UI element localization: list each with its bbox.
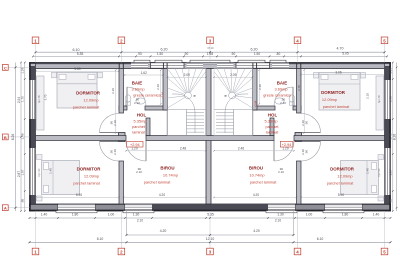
jamb mark top wall xyxy=(256,63,258,69)
svg-text:4.20: 4.20 xyxy=(159,193,165,197)
svg-text:2.10: 2.10 xyxy=(280,101,286,105)
wall exterior right xyxy=(385,63,391,212)
door baie right xyxy=(292,87,294,106)
stairs left unit xyxy=(168,69,207,136)
dimension chain left mid xyxy=(20,63,22,212)
jamb mark top wall xyxy=(252,63,254,69)
svg-text:5.35mp: 5.35mp xyxy=(134,119,147,124)
svg-text:1.20: 1.20 xyxy=(282,147,288,151)
grid stub left B xyxy=(8,136,29,138)
outer edge top wall xyxy=(30,62,132,64)
wall exterior top xyxy=(30,63,391,69)
grid marker left C xyxy=(2,65,8,71)
dimension row bottom total xyxy=(30,241,391,243)
interior dim vline baie R xyxy=(258,70,260,104)
svg-text:DORMITOR: DORMITOR xyxy=(77,167,102,172)
wall baie-left stair side xyxy=(163,69,168,111)
svg-text:1.28: 1.28 xyxy=(21,67,25,73)
wall baie-right bottom b xyxy=(293,106,301,110)
svg-text:2.10: 2.10 xyxy=(301,120,305,126)
svg-text:up: up xyxy=(193,94,197,98)
outer edge left wall xyxy=(29,63,31,81)
grid marker top 2 xyxy=(118,37,125,44)
svg-text:1.57: 1.57 xyxy=(389,169,393,175)
svg-text:4.70: 4.70 xyxy=(337,47,344,51)
svg-text:1.40: 1.40 xyxy=(366,168,370,174)
grid marker bottom 4 xyxy=(294,248,301,255)
level box hol right xyxy=(280,141,293,147)
grid stub left C xyxy=(8,66,29,68)
svg-text:6.10: 6.10 xyxy=(73,48,80,52)
interior dim birou L width xyxy=(124,196,207,198)
outer edge top wall xyxy=(289,62,391,64)
wall B-line right xyxy=(294,136,385,141)
interior dim hol-birou R xyxy=(214,150,294,152)
pier left wall xyxy=(30,119,35,148)
window bottom wall xyxy=(325,204,362,210)
door dormitor top-left xyxy=(100,132,120,134)
nightstand BR b xyxy=(378,196,384,201)
pier divider right xyxy=(295,133,302,142)
door birou left xyxy=(145,141,147,162)
wall divider right upper xyxy=(297,69,302,114)
nightstand TL a xyxy=(52,72,57,78)
wall inner line top xyxy=(36,63,385,65)
window top wall xyxy=(217,63,234,68)
svg-text:12.09mp: 12.09mp xyxy=(337,174,352,179)
svg-text:5.05: 5.05 xyxy=(342,52,349,56)
jamb mark top wall xyxy=(122,63,124,69)
pier bottom wall xyxy=(295,204,325,210)
grid stub bottom 1 xyxy=(35,211,37,248)
outer edge bottom wall xyxy=(152,209,268,211)
svg-text:.90: .90 xyxy=(137,52,142,56)
grid stub top 1 xyxy=(35,44,37,63)
svg-text:5.90: 5.90 xyxy=(338,193,344,197)
interior dim vline dormitor R xyxy=(303,70,305,133)
outer edge left wall xyxy=(29,119,31,148)
nightstand TL b xyxy=(98,72,103,78)
wall baie-left bottom b xyxy=(145,106,168,110)
wall exterior left xyxy=(30,63,36,212)
door baie left xyxy=(126,87,128,106)
window sill bottom xyxy=(123,211,154,213)
svg-text:5.80: 5.80 xyxy=(74,67,80,71)
bed dormitor top-right xyxy=(319,73,360,111)
wall divider right lower xyxy=(297,161,302,204)
svg-text:12.09mp: 12.09mp xyxy=(322,97,337,102)
svg-text:.90: .90 xyxy=(305,150,309,154)
grid stub top 5 xyxy=(384,44,386,63)
grid marker bottom 2 xyxy=(118,248,125,255)
wall inner line top b xyxy=(36,66,132,68)
window right wall xyxy=(385,80,390,119)
interior dim vline dormitor L xyxy=(115,70,117,133)
svg-text:1.98: 1.98 xyxy=(207,52,213,56)
svg-text:1.28: 1.28 xyxy=(389,67,393,73)
pier right wall xyxy=(385,119,390,148)
svg-text:HOL: HOL xyxy=(268,113,278,118)
line stairwell edge left xyxy=(166,110,168,136)
pier right wall xyxy=(385,66,390,80)
grid stub bottom 2 xyxy=(120,211,122,248)
window sill bottom xyxy=(266,211,297,213)
svg-text:3.69mp: 3.69mp xyxy=(275,87,288,92)
bed dormitor top-left xyxy=(57,72,97,108)
outer edge left wall xyxy=(29,195,31,211)
interior dim dormitor TL width xyxy=(36,70,119,72)
door dormitor bottom-right xyxy=(301,141,321,143)
wall inner line bottom xyxy=(36,205,385,207)
wall divider left lower xyxy=(119,161,124,204)
wall inner line left xyxy=(30,69,32,205)
outer edge right wall xyxy=(389,63,391,81)
wall center party xyxy=(206,69,211,205)
svg-text:2.09: 2.09 xyxy=(184,73,190,77)
svg-text:2.10: 2.10 xyxy=(275,219,281,223)
wall divider left upper xyxy=(119,69,124,114)
window top wall boxed xyxy=(151,63,185,68)
svg-text:laminat: laminat xyxy=(266,130,279,135)
svg-text:6.10: 6.10 xyxy=(317,237,324,241)
outer edge bottom wall xyxy=(95,209,125,211)
interior dim birou R width xyxy=(214,196,297,198)
pier right wall xyxy=(385,195,390,208)
svg-text:C: C xyxy=(4,65,7,70)
svg-text:2.10: 2.10 xyxy=(113,120,117,126)
svg-text:hp=.90: hp=.90 xyxy=(38,95,41,103)
svg-text:gresie ceramica: gresie ceramica xyxy=(263,93,291,98)
svg-text:4.20: 4.20 xyxy=(253,229,260,233)
svg-text:hp=.90: hp=.90 xyxy=(378,168,381,176)
wardrobe dormitor top-right xyxy=(376,76,384,130)
pier left wall xyxy=(30,66,35,80)
svg-text:hp=.90: hp=.90 xyxy=(378,95,381,103)
svg-text:2.46: 2.46 xyxy=(238,147,244,151)
sink baie left xyxy=(136,98,145,104)
wall spur hol-stair left xyxy=(146,118,150,136)
pier bottom wall xyxy=(30,204,59,210)
bed dormitor bottom-left xyxy=(42,161,80,195)
dimension row top segments xyxy=(33,55,387,57)
svg-text:5.35: 5.35 xyxy=(77,52,84,56)
svg-text:hp=.90: hp=.90 xyxy=(38,168,41,176)
window top wall boxed xyxy=(236,63,270,68)
svg-text:2.10: 2.10 xyxy=(366,93,370,99)
svg-text:parchet laminat: parchet laminat xyxy=(323,104,351,109)
interior dim stair R width xyxy=(214,76,253,78)
window top wall xyxy=(187,63,204,68)
svg-text:1.00: 1.00 xyxy=(108,213,115,217)
window bottom wall xyxy=(125,204,152,210)
grid marker top 3 xyxy=(207,37,214,44)
grid stub left A xyxy=(8,207,29,209)
svg-text:1.50: 1.50 xyxy=(157,52,163,56)
window left wall xyxy=(30,80,35,119)
svg-text:+2.94: +2.94 xyxy=(161,92,165,99)
jamb mark top wall xyxy=(166,63,168,69)
svg-text:10.74mp: 10.74mp xyxy=(163,173,178,178)
window sill bottom xyxy=(56,211,97,213)
wc baie left xyxy=(125,95,131,102)
interior dim vline baie L xyxy=(160,70,162,104)
outer edge bottom wall xyxy=(362,209,391,211)
svg-text:1.00: 1.00 xyxy=(306,213,313,217)
grid stub bottom 4 xyxy=(297,211,299,248)
jamb mark top wall xyxy=(162,63,164,69)
svg-text:BIROU: BIROU xyxy=(249,166,263,171)
svg-text:B: B xyxy=(4,135,7,140)
svg-text:10.74mp: 10.74mp xyxy=(249,173,264,178)
grid marker bottom 3 xyxy=(207,248,214,255)
window sill bottom xyxy=(323,211,364,213)
svg-text:up: up xyxy=(224,94,228,98)
level box hol left xyxy=(127,141,144,147)
svg-text:DORMITOR: DORMITOR xyxy=(330,167,355,172)
dimension chain right outer xyxy=(396,63,398,212)
dimension row bottom detour xyxy=(126,211,128,235)
svg-text:1.20: 1.20 xyxy=(131,147,137,151)
window sill top xyxy=(190,60,230,62)
svg-text:parchet: parchet xyxy=(132,124,146,129)
grid stub top 3 xyxy=(209,44,211,63)
wall exterior bottom xyxy=(30,204,391,211)
wc baie right xyxy=(289,95,295,102)
grid stub bottom 3 xyxy=(209,211,211,248)
window top wall xyxy=(272,63,289,68)
svg-text:parchet: parchet xyxy=(266,124,280,129)
interior dim dormitor BR width xyxy=(301,196,385,198)
svg-text:12.09mp: 12.09mp xyxy=(83,98,98,103)
svg-text:2.10: 2.10 xyxy=(258,84,262,90)
svg-text:1.30: 1.30 xyxy=(133,213,140,217)
window bottom wall xyxy=(268,204,295,210)
grid marker top 1 xyxy=(32,37,39,44)
grid stub top 4 xyxy=(297,44,299,63)
nightstand TR b xyxy=(361,73,366,79)
door dormitor top-right xyxy=(301,132,321,134)
pier divider left xyxy=(119,133,126,142)
svg-text:.85: .85 xyxy=(389,199,393,204)
svg-text:parchet laminat: parchet laminat xyxy=(144,180,172,185)
svg-text:1.40: 1.40 xyxy=(41,213,48,217)
svg-text:.80: .80 xyxy=(276,52,281,56)
nightstand BR a xyxy=(378,155,384,160)
svg-text:4.20: 4.20 xyxy=(160,229,167,233)
jamb mark top wall xyxy=(118,63,120,69)
svg-text:6.10: 6.10 xyxy=(97,237,104,241)
wardrobe dormitor top-left xyxy=(37,76,45,130)
svg-text:parchet laminat: parchet laminat xyxy=(73,181,101,186)
window left wall xyxy=(30,148,35,195)
svg-text:parchet laminat: parchet laminat xyxy=(250,180,278,185)
svg-text:.90: .90 xyxy=(231,52,236,56)
wall baie-right bottom a xyxy=(253,106,276,110)
svg-text:1.70: 1.70 xyxy=(21,96,25,102)
pier bottom wall xyxy=(95,204,125,210)
svg-text:2.10: 2.10 xyxy=(134,101,140,105)
wall baie-right stair side xyxy=(253,69,258,111)
svg-text:3.70: 3.70 xyxy=(43,94,47,100)
svg-text:HOL: HOL xyxy=(137,113,147,118)
svg-text:8.26: 8.26 xyxy=(11,134,15,141)
nightstand BL b xyxy=(37,196,43,201)
svg-text:BAIE: BAIE xyxy=(132,81,143,86)
dimension row bottom segments xyxy=(30,217,391,219)
outer edge bottom wall xyxy=(295,209,325,211)
window sill top xyxy=(270,60,286,62)
grid marker bottom 5 xyxy=(381,248,388,255)
svg-text:12.10: 12.10 xyxy=(206,237,215,241)
jamb mark top wall xyxy=(300,63,302,69)
nightstand BL a xyxy=(37,155,43,160)
svg-text:DORMITOR: DORMITOR xyxy=(321,90,346,95)
svg-text:8.26: 8.26 xyxy=(392,134,396,141)
svg-text:.90: .90 xyxy=(184,52,189,56)
svg-text:6.20: 6.20 xyxy=(251,47,258,51)
svg-text:DORMITOR: DORMITOR xyxy=(76,91,101,96)
door dormitor bottom-left xyxy=(100,141,120,143)
svg-text:parchet laminat: parchet laminat xyxy=(327,181,355,186)
svg-text:5.35: 5.35 xyxy=(207,213,214,217)
svg-text:1.40: 1.40 xyxy=(49,168,53,174)
window right wall xyxy=(385,148,390,195)
interior dim dormitor TR width xyxy=(301,74,385,76)
bed dormitor bottom-right xyxy=(341,161,379,195)
svg-text:laminat: laminat xyxy=(132,130,145,135)
grid stub bottom 5 xyxy=(384,211,386,248)
svg-text:1.62: 1.62 xyxy=(141,71,147,75)
svg-text:1.40: 1.40 xyxy=(373,213,380,217)
grid marker top 4 xyxy=(294,37,301,44)
pier bottom wall center xyxy=(152,204,268,210)
svg-text:1.48: 1.48 xyxy=(21,133,25,139)
svg-text:1.57: 1.57 xyxy=(21,169,25,175)
stairs right unit xyxy=(214,69,253,136)
window sill top xyxy=(155,60,182,62)
dimension chain left outer xyxy=(15,63,17,212)
svg-text:1.70: 1.70 xyxy=(389,96,393,102)
svg-text:1.30: 1.30 xyxy=(277,213,284,217)
interior dim stair L width xyxy=(168,76,207,78)
svg-text:parchet laminat: parchet laminat xyxy=(73,105,101,110)
svg-text:5.35mp: 5.35mp xyxy=(265,119,278,124)
pier bottom wall xyxy=(362,204,391,210)
wall spur hol-stair right xyxy=(270,118,274,136)
svg-text:1.80: 1.80 xyxy=(72,213,79,217)
wall B-line left xyxy=(36,136,127,141)
grid marker bottom 1 xyxy=(32,248,39,255)
svg-text:2.70: 2.70 xyxy=(297,85,301,91)
jamb mark top wall xyxy=(296,63,298,69)
dimension chain right inner xyxy=(392,63,394,212)
sink baie right xyxy=(275,98,284,104)
door birou right xyxy=(273,141,275,162)
svg-text:BAIE: BAIE xyxy=(277,81,288,86)
wall inner line right xyxy=(388,69,390,205)
nightstand TR a xyxy=(314,73,319,79)
grid marker left A xyxy=(2,205,8,211)
pier left wall xyxy=(30,195,35,208)
svg-text:2.10: 2.10 xyxy=(156,84,160,90)
window bottom wall xyxy=(58,204,95,210)
svg-text:3.06: 3.06 xyxy=(335,70,341,74)
dimension row top totals xyxy=(36,51,385,53)
window top wall xyxy=(131,63,148,68)
svg-text:12.09mp: 12.09mp xyxy=(84,174,99,179)
svg-text:3.69mp: 3.69mp xyxy=(132,87,145,92)
svg-text:07.10: 07.10 xyxy=(208,47,215,50)
svg-text:A: A xyxy=(4,206,7,211)
svg-text:2.10: 2.10 xyxy=(113,149,117,155)
svg-text:2.48: 2.48 xyxy=(180,147,186,151)
dimension chain left inner xyxy=(24,63,26,212)
grid marker left B xyxy=(2,134,8,140)
svg-text:.85: .85 xyxy=(21,199,25,204)
svg-text:2.10: 2.10 xyxy=(278,170,284,174)
interior dim hol-birou L xyxy=(126,150,206,152)
wall baie-left bottom a xyxy=(119,106,127,110)
svg-text:2.10: 2.10 xyxy=(137,219,143,223)
svg-text:2.10: 2.10 xyxy=(301,149,305,155)
svg-text:5.90: 5.90 xyxy=(76,193,82,197)
grid marker top 5 xyxy=(381,37,388,44)
svg-text:.90: .90 xyxy=(305,121,309,125)
svg-text:2.10: 2.10 xyxy=(136,170,142,174)
svg-text:6.20: 6.20 xyxy=(161,47,168,51)
svg-text:2.10: 2.10 xyxy=(111,88,115,94)
svg-text:1.50: 1.50 xyxy=(254,52,260,56)
outer edge right wall xyxy=(389,119,391,148)
svg-text:1.80: 1.80 xyxy=(342,213,349,217)
outer edge bottom wall xyxy=(30,209,59,211)
grid stub top 2 xyxy=(120,44,122,63)
line stairwell edge right xyxy=(252,110,254,136)
svg-text:2.09: 2.09 xyxy=(230,73,236,77)
outer edge right wall xyxy=(389,195,391,211)
window sill top xyxy=(238,60,265,62)
svg-text:+2.94: +2.94 xyxy=(253,100,257,107)
svg-text:4.20: 4.20 xyxy=(253,193,259,197)
wall B-line center xyxy=(146,136,274,141)
window sill top xyxy=(134,60,150,62)
interior dim baie L width xyxy=(125,74,164,76)
svg-text:BIROU: BIROU xyxy=(160,166,174,171)
interior dim dormitor BL width xyxy=(36,196,120,198)
